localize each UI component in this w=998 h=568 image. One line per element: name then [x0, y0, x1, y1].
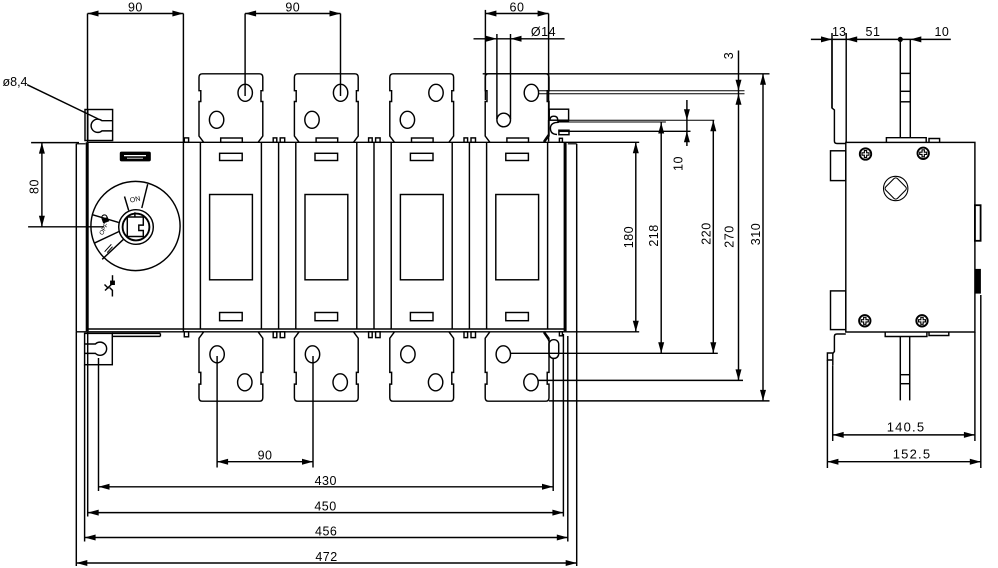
leader from pole4 large hole bottom (3 dim): [539, 93, 745, 95]
svg-text:60: 60: [510, 1, 525, 15]
pole 3 window: [400, 195, 443, 280]
pole 3 top bracket large hole: [429, 84, 443, 101]
dimension 430: [99, 486, 554, 488]
pole 4 bottom bracket large hole: [496, 346, 510, 363]
pole 4 bottom terminal bracket: [485, 332, 549, 401]
pole 1 top bracket heat tab: [221, 138, 243, 142]
dimension 3 and 270 shared line: [738, 51, 740, 381]
bottom mounting plate extending right: [112, 332, 160, 334]
pole 4 top bracket small hole (O14): [497, 113, 511, 127]
svg-text:13: 13: [832, 25, 846, 39]
side view bottom DIN clip profile: [833, 334, 846, 365]
left wall top step: [76, 143, 85, 145]
leader terminal profile upper (10 top / 220 top): [569, 119, 714, 121]
side view screw top-right: [918, 148, 929, 159]
side view dimension 140.5: [832, 365, 834, 441]
svg-text:10: 10: [672, 156, 686, 171]
side view dimension line 13-51-10: [811, 38, 951, 40]
pole 3 top terminal bracket: [390, 74, 454, 143]
dimension 218: [660, 123, 662, 354]
svg-text:270: 270: [723, 225, 737, 247]
svg-text:140.5: 140.5: [887, 420, 926, 435]
pole module 3 body: [390, 142, 392, 329]
pole 4 top terminal bracket: [485, 74, 549, 143]
svg-text:450: 450: [314, 500, 336, 514]
svg-text:90: 90: [128, 1, 143, 15]
top tab right of handle boundary: [184, 138, 188, 142]
side view upper DIN clip: [831, 151, 846, 181]
svg-text:51: 51: [866, 25, 881, 39]
pole 2 top bracket small hole: [305, 111, 319, 128]
pole 4 bottom vent slot: [506, 313, 529, 321]
dimension 80 (handle height, left side): [31, 142, 79, 144]
dimension 10 (right side small): [686, 100, 688, 146]
right wall top step: [568, 143, 577, 145]
leader from pole4 bracket bottom (310 bottom): [549, 400, 770, 402]
pole 3 bottom vent slot: [410, 313, 433, 321]
side view handle shaft bottom: [899, 337, 901, 401]
O14 right extension line into hole: [510, 34, 512, 119]
handle radial line lower-left: [102, 239, 123, 259]
right side terminal profile bottom (capsule): [549, 340, 559, 359]
pole 4 top bracket large hole (leader to 3 dim): [524, 84, 538, 101]
side view bottom tab: [929, 332, 949, 336]
side view central square shaft hole: [884, 176, 908, 200]
right side terminal profile top: [549, 109, 568, 120]
bottom keyhole slot cutout: [85, 342, 107, 355]
keyhole slot cutout: [91, 119, 112, 132]
pole 1 top terminal bracket: [199, 74, 263, 143]
right side wall line: [576, 144, 578, 332]
dimension 180: [635, 142, 637, 331]
side view lower DIN clip: [831, 291, 846, 330]
boundary line handle section to pole 1 (also 90 dim extension): [182, 14, 184, 332]
svg-text:90: 90: [258, 449, 273, 463]
pole 2 bottom bracket small hole: [333, 374, 347, 391]
body right edge thick: [564, 142, 567, 331]
handle key square with notch: [127, 217, 143, 237]
pole 3 bottom bracket large hole: [401, 346, 415, 363]
handle boss inner ring: [123, 214, 150, 241]
dimension 90 (left, handle section width): [88, 13, 184, 15]
dimension 456: [85, 537, 568, 539]
bottom-left mounting bracket with keyhole slot: [85, 333, 113, 364]
svg-text:310: 310: [749, 223, 763, 245]
pointer tick on key: [134, 212, 136, 217]
side view body outline: [846, 142, 975, 332]
side view shaft mounting plate top: [886, 138, 926, 143]
side view shaft plate bottom: [885, 332, 927, 337]
pole 4 window: [496, 195, 539, 280]
dimension 310: [762, 74, 764, 401]
side view handle shaft top: [899, 39, 901, 137]
inter-pole barrier 2: [373, 142, 375, 329]
svg-text:Ø14: Ø14: [531, 25, 556, 39]
leader terminal profile lower (10 bottom): [569, 130, 691, 132]
side view top DIN clip profile: [832, 39, 846, 143]
side view right protrusion bars: [975, 205, 981, 241]
inter-pole barrier 1: [278, 142, 280, 329]
label plate (black): [121, 152, 151, 160]
dimension 90 (pole1-pole2 hole spacing top): [245, 13, 340, 15]
leader terminal profile upper second line (218 top): [569, 121, 666, 123]
leader from bracket top edge (310 top): [483, 73, 770, 75]
svg-text:90: 90: [285, 1, 300, 15]
svg-text:430: 430: [315, 474, 337, 488]
svg-text:10: 10: [934, 25, 949, 39]
svg-text:3: 3: [722, 52, 736, 59]
svg-text:180: 180: [622, 226, 636, 248]
pole 2 window: [305, 195, 348, 280]
pole 2 top bracket large hole: [333, 84, 347, 101]
dimension 220: [712, 120, 714, 353]
left side wall line: [75, 144, 77, 332]
svg-text:472: 472: [315, 550, 337, 564]
pole 2 bottom bracket large hole: [305, 346, 319, 363]
pole 2 top bracket heat tab: [316, 138, 338, 142]
bottom clip hook: [827, 353, 832, 360]
90 dim left extension through bracket: [87, 14, 89, 143]
tiny text marks lower-left of handle: [105, 244, 114, 253]
dimension 472: [76, 562, 576, 564]
svg-text:218: 218: [647, 224, 661, 246]
60 dim left extension: [484, 10, 486, 100]
extension line into pole1 top hole: [244, 14, 246, 97]
handle boss outer ring: [119, 210, 154, 245]
bottom tab right of handle boundary: [184, 332, 188, 337]
small switch symbol below handle: [112, 275, 114, 281]
svg-text:152.5: 152.5: [893, 447, 932, 462]
pole 2 top terminal bracket: [294, 74, 358, 143]
pole 4 bottom bracket small hole: [524, 374, 538, 391]
side view screw top-left: [860, 148, 871, 159]
pole 1 bottom bracket small hole: [238, 374, 252, 391]
pole 1 bottom terminal bracket: [199, 332, 263, 401]
dimension 450: [88, 512, 564, 514]
inter-pole barrier 3: [468, 142, 470, 329]
leader from pole4 large hole top (3 dim): [539, 90, 745, 92]
side view dimension 152.5: [826, 360, 828, 468]
pole 4 top bracket heat tab: [507, 138, 529, 142]
pole module 4 body: [486, 142, 488, 329]
O14 left extension line into hole: [496, 34, 498, 119]
pole 4 top vent slot: [506, 153, 529, 160]
pole 1 bottom bracket large hole: [210, 346, 224, 363]
svg-text:ø8,4: ø8,4: [2, 75, 27, 89]
pole 1 top vent slot: [220, 153, 243, 160]
leader from pole4 bottom small hole (270 bottom): [538, 379, 743, 381]
extension line into pole2 top hole: [340, 14, 342, 97]
top-left mounting bracket with keyhole slot (o8,4): [85, 110, 113, 141]
pole 1 bottom vent slot: [220, 313, 243, 321]
side view screw bottom-left: [859, 315, 870, 326]
handle sector radial lines (ON pointer): [125, 197, 129, 211]
pole 3 bottom terminal bracket: [390, 332, 454, 401]
pole 1 window: [210, 195, 253, 280]
dimension 60 (pole 4 bracket): [485, 13, 548, 15]
bottom extension lines left: [75, 332, 77, 566]
rotary handle large circle: [91, 181, 180, 270]
pole 3 bottom bracket small hole: [428, 374, 442, 391]
bottom extension lines right: [552, 359, 554, 492]
svg-text:80: 80: [28, 179, 42, 194]
pole 3 top bracket heat tab: [412, 138, 434, 142]
pole 3 top bracket small hole: [400, 111, 414, 128]
pole 1 top bracket large hole: [238, 84, 252, 101]
side view screw bottom-right: [916, 315, 927, 326]
switch body outline front view: [88, 141, 640, 143]
pole 1 top bracket small hole: [209, 111, 223, 128]
padlock symbol: [101, 214, 110, 224]
handle sector radial lines (OFF, left): [92, 215, 119, 223]
pole module 1 body: [199, 142, 201, 329]
pole 2 top vent slot: [315, 153, 338, 160]
pole 2 bottom vent slot: [315, 313, 338, 321]
svg-text:220: 220: [699, 222, 713, 244]
bottom 90 dimension (pole1-pole2 bottom holes): [216, 356, 218, 468]
pole module 2 body: [295, 142, 297, 329]
pole 3 top vent slot: [410, 153, 433, 160]
terminal profile foot: [544, 120, 549, 142]
small tab at right top: [559, 138, 562, 142]
leader from pole4 bottom large hole (218/220 bottom): [511, 352, 718, 354]
body left edge thick: [86, 142, 89, 331]
svg-text:456: 456: [315, 525, 337, 539]
pole 2 bottom terminal bracket: [294, 332, 358, 401]
60 dim right extension / bracket edge: [548, 14, 550, 142]
